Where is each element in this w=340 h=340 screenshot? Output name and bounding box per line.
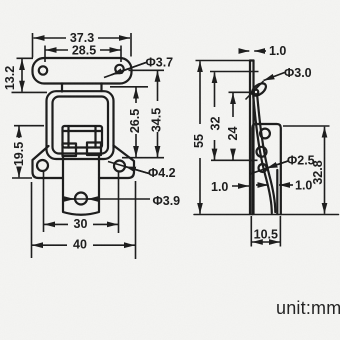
dim 30 [44,171,119,233]
top plate [33,58,132,92]
leader dia3.0 [246,73,285,100]
top plate left hole [39,66,47,74]
dim 1.0 bottom left [232,185,249,187]
dim 32.8 [283,126,330,214]
leader dia3.7 [104,63,146,78]
loop outer [47,91,114,159]
leader dia4.2 [108,162,149,174]
lever [253,97,275,214]
dim 55 [196,61,254,214]
dim 13.2 [12,58,48,92]
base plate left hole [37,160,48,171]
dim 1.0 top [239,50,266,52]
dim 10.5 [251,216,280,247]
dim 34.5 [129,70,165,157]
strap [63,156,99,215]
dim 32 [210,72,259,161]
dim 37.3 [33,33,132,58]
dim 19.5 [12,126,44,178]
bracket hole bottom [259,164,267,172]
dim 28.5 [45,46,121,63]
bracket [252,124,280,214]
bracket hole top [260,129,270,139]
ground line [194,214,339,216]
dim 1.0 bottom right [256,184,293,186]
slide left tab [63,144,77,157]
dim 24 [229,92,252,159]
strap hole [75,193,87,205]
slide right tab [87,143,101,156]
mounting plate edge-on [250,61,254,215]
hook curl [250,81,268,98]
loop inner [53,97,109,154]
dim 26.5 [110,87,164,158]
dim 40 [32,181,136,259]
base plate right hole [114,161,125,172]
top plate right hole [115,65,123,73]
side view [194,61,339,215]
base plate [33,146,135,179]
leader dia2.5 [250,161,288,174]
slide [63,126,103,148]
bracket hole middle [257,147,267,157]
leader dia3.9 [68,198,150,200]
